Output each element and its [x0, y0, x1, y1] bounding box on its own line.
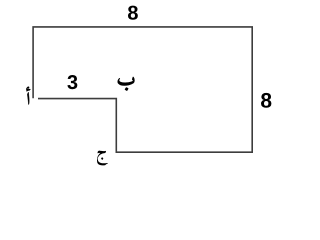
- label 3 (step length): [67, 75, 77, 89]
- label 8 (right side length): [261, 93, 271, 108]
- vertex label jeem (ج): [97, 151, 108, 166]
- outline of L-shaped figure (wire): [33, 27, 252, 152]
- vertex label alef-hamza (أ): [26, 87, 30, 105]
- label 8 (top side length): [128, 6, 138, 20]
- vertex label beh (ب): [118, 77, 135, 91]
